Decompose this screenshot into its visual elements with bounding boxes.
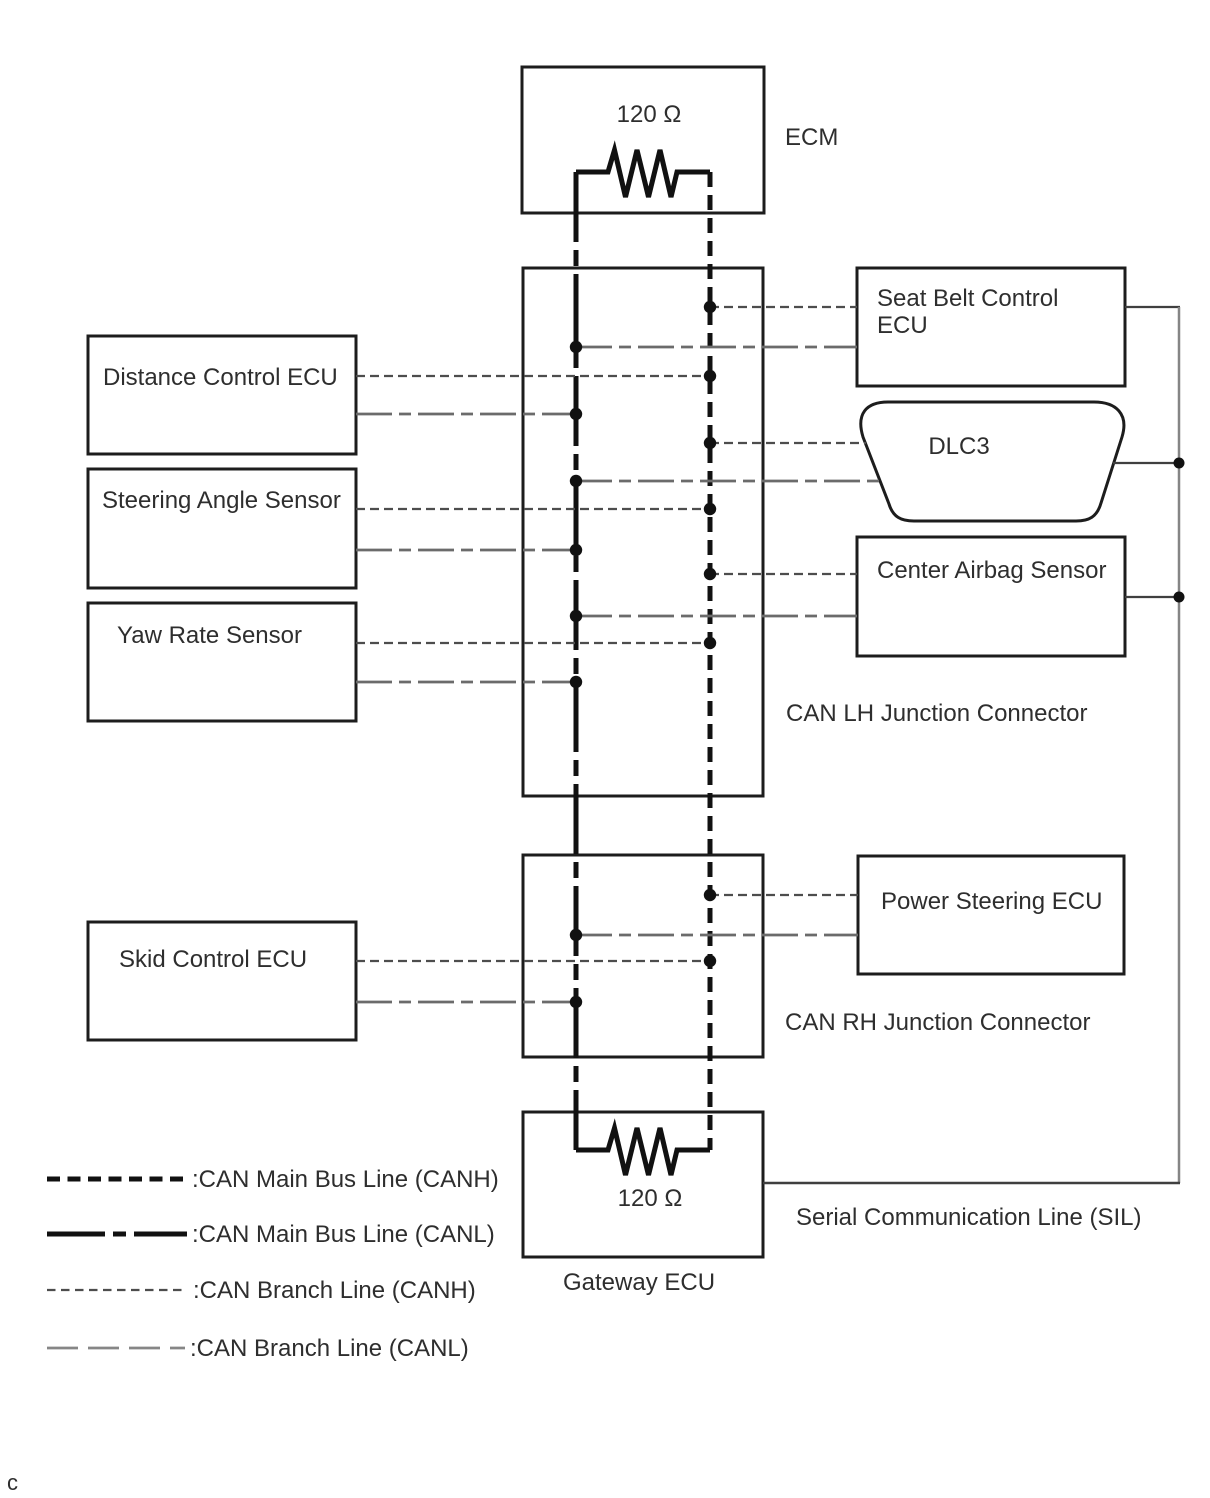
wire: CANH branch from Skid Control ECU (356, 960, 710, 962)
wire: CANL branch to Seat Belt Control ECU (576, 346, 857, 349)
Steering Angle Sensor box (88, 469, 356, 588)
svg-text::CAN Branch Line (CANL): :CAN Branch Line (CANL) (190, 1335, 469, 1362)
wire: CANH branch to DLC3 (710, 442, 866, 444)
Yaw Rate Sensor box (88, 603, 356, 721)
label 120 ohm (Gateway) (618, 1185, 683, 1212)
serial communication line SIL: bottom horizontal into Gateway ECU (763, 1182, 1180, 1185)
legend sample: CAN branch line CANL (47, 1347, 185, 1350)
svg-text:CAN LH Junction Connector: CAN LH Junction Connector (786, 700, 1087, 727)
wire: CANH branch to Power Steering ECU (710, 894, 858, 896)
node on CANL at Distance branch (570, 408, 582, 420)
node on CANH at Power Steering branch (704, 889, 716, 901)
svg-text:Distance Control ECU: Distance Control ECU (103, 364, 338, 391)
wire: CANL branch to Center Airbag Sensor (576, 615, 857, 618)
label ECM (785, 124, 838, 151)
svg-text::CAN Branch Line (CANH): :CAN Branch Line (CANH) (193, 1277, 476, 1304)
node on CANL at Airbag branch (570, 610, 582, 622)
legend label CANL branch (190, 1335, 469, 1362)
Distance Control ECU box (88, 336, 356, 454)
node: SIL junction at Center Airbag Sensor (1174, 592, 1185, 603)
label Serial Communication Line (SIL) (796, 1204, 1141, 1231)
node on CANL at Yaw branch (570, 676, 582, 688)
wire: CANL branch to Power Steering ECU (576, 934, 858, 937)
svg-text:Steering Angle Sensor: Steering Angle Sensor (102, 487, 341, 514)
label Seat Belt Control ECU (877, 285, 1058, 339)
svg-text:Skid Control ECU: Skid Control ECU (119, 946, 307, 973)
wire: CANL branch to DLC3 (576, 480, 881, 483)
resistor R2 120 ohm inside Gateway ECU (576, 1128, 710, 1175)
page marker c (7, 1470, 18, 1495)
serial communication line SIL: Center Airbag Sensor to right rail (1125, 596, 1180, 598)
node on CANH at DLC3 branch (704, 437, 716, 449)
node on CANL at Seat Belt branch (570, 341, 582, 353)
CAN LH Junction Connector box (523, 268, 763, 796)
Center Airbag Sensor box (857, 537, 1125, 656)
node on CANH at Yaw branch (704, 637, 716, 649)
node on CANL at DLC3 branch (570, 475, 582, 487)
legend label CANH main (192, 1166, 499, 1193)
svg-text:ECM: ECM (785, 124, 838, 151)
label Gateway ECU (563, 1269, 715, 1296)
svg-text:120 Ω: 120 Ω (617, 101, 682, 128)
wire: CANL branch from Yaw Rate Sensor (356, 681, 576, 684)
svg-text:Serial Communication Line (SIL: Serial Communication Line (SIL) (796, 1204, 1141, 1231)
label 120 ohm (ECM) (617, 101, 682, 128)
node on CANL at Steering branch (570, 544, 582, 556)
DLC3 connector shape (861, 402, 1124, 521)
node on CANH at Seat Belt branch (704, 301, 716, 313)
svg-text:Seat Belt Control: Seat Belt Control (877, 285, 1058, 312)
node on CANH at Steering branch (704, 503, 716, 515)
wire: CANH branch to Seat Belt Control ECU (710, 306, 857, 308)
label Steering Angle Sensor (102, 487, 341, 514)
label Distance Control ECU (103, 364, 338, 391)
node on CANL at Skid branch (570, 996, 582, 1008)
svg-text:Power Steering ECU: Power Steering ECU (881, 888, 1102, 915)
wire: CANL branch from Steering Angle Sensor (356, 549, 576, 552)
serial communication line SIL: DLC3 to right rail (1113, 462, 1180, 464)
node on CANH at Distance branch (704, 370, 716, 382)
ECM box (522, 67, 764, 213)
label Power Steering ECU (881, 888, 1102, 915)
Seat Belt Control ECU box (857, 268, 1125, 386)
label CAN LH Junction Connector (786, 700, 1087, 727)
svg-text::CAN Main Bus Line (CANL): :CAN Main Bus Line (CANL) (192, 1221, 495, 1248)
node on CANH at Airbag branch (704, 568, 716, 580)
svg-text:120 Ω: 120 Ω (618, 1185, 683, 1212)
legend label CANH branch (193, 1277, 476, 1304)
svg-text:Yaw Rate Sensor: Yaw Rate Sensor (117, 622, 302, 649)
wire: CANL branch from Distance Control ECU (356, 413, 576, 416)
serial communication line SIL: right vertical rail (1178, 307, 1181, 1183)
node on CANH at Skid branch (704, 955, 716, 967)
svg-text:Center Airbag Sensor: Center Airbag Sensor (877, 557, 1106, 584)
svg-text:DLC3: DLC3 (928, 433, 989, 460)
Gateway ECU box (523, 1112, 763, 1257)
legend sample: CAN main bus line CANL (47, 1232, 187, 1237)
resistor R1 120 ohm inside ECM (576, 150, 710, 197)
CAN RH Junction Connector box (523, 855, 763, 1057)
label Yaw Rate Sensor (117, 622, 302, 649)
wire: CAN main bus line CANH (right vertical) (708, 172, 713, 1150)
legend sample: CAN main bus line CANH (47, 1177, 189, 1182)
wire: CANL branch from Skid Control ECU (356, 1001, 576, 1004)
node: SIL junction at DLC3 (1174, 458, 1185, 469)
svg-text:CAN RH Junction Connector: CAN RH Junction Connector (785, 1009, 1090, 1036)
label Skid Control ECU (119, 946, 307, 973)
serial communication line SIL: Seat Belt ECU to right rail (1125, 306, 1180, 308)
wire: CANH branch from Yaw Rate Sensor (356, 642, 710, 644)
wire: CANH branch from Steering Angle Sensor (356, 508, 710, 510)
label CAN RH Junction Connector (785, 1009, 1090, 1036)
svg-text::CAN Main Bus Line (CANH): :CAN Main Bus Line (CANH) (192, 1166, 499, 1193)
wire: CANH branch from Distance Control ECU (356, 375, 710, 377)
label Center Airbag Sensor (877, 557, 1106, 584)
legend sample: CAN branch line CANH (47, 1289, 183, 1291)
label DLC3 (928, 433, 989, 460)
Power Steering ECU box (858, 856, 1124, 974)
svg-text:c: c (7, 1470, 18, 1495)
wire: CAN main bus line CANL (left vertical) (574, 172, 579, 1150)
legend label CANL main (192, 1221, 495, 1248)
node on CANL at Power Steering branch (570, 929, 582, 941)
wire: CANH branch to Center Airbag Sensor (710, 573, 857, 575)
svg-text:Gateway ECU: Gateway ECU (563, 1269, 715, 1296)
svg-text:ECU: ECU (877, 312, 928, 339)
Skid Control ECU box (88, 922, 356, 1040)
